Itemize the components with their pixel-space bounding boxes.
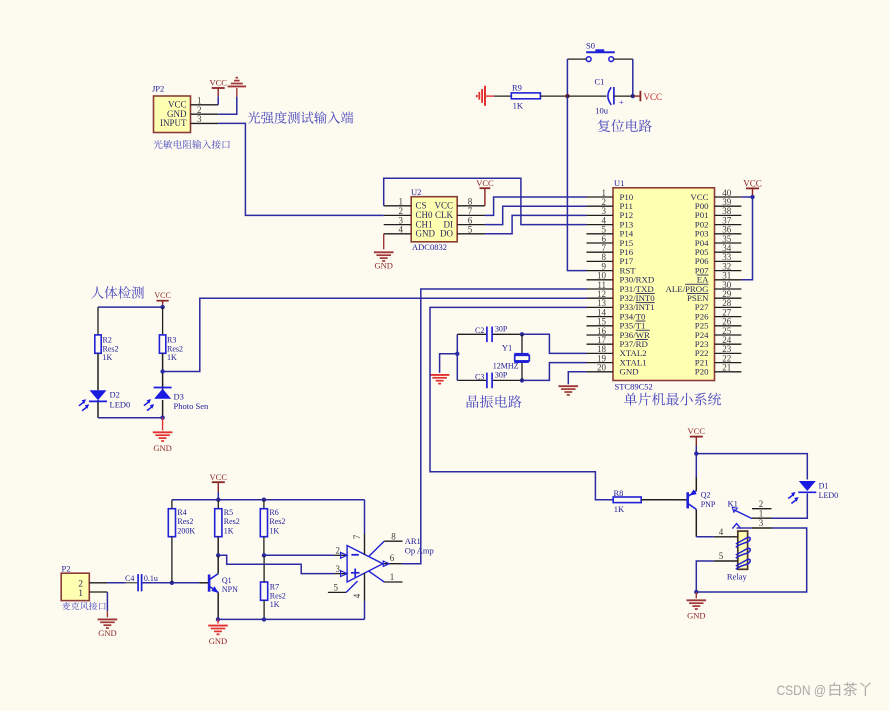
svg-text:P20: P20 xyxy=(695,367,709,377)
svg-text:Relay: Relay xyxy=(727,571,748,581)
svg-text:NPN: NPN xyxy=(222,585,238,594)
svg-text:GND: GND xyxy=(416,229,436,239)
svg-text:4: 4 xyxy=(398,225,403,235)
svg-text:Res2: Res2 xyxy=(103,344,119,353)
svg-text:P2: P2 xyxy=(62,564,71,574)
svg-text:VCC: VCC xyxy=(209,77,227,87)
svg-text:GND: GND xyxy=(209,636,227,646)
svg-text:R6: R6 xyxy=(269,508,278,517)
svg-text:Res2: Res2 xyxy=(167,344,183,353)
svg-text:1K: 1K xyxy=(167,353,177,362)
svg-text:Q1: Q1 xyxy=(222,576,232,585)
svg-text:PNP: PNP xyxy=(701,500,716,509)
svg-text:5: 5 xyxy=(468,225,473,235)
svg-text:Res2: Res2 xyxy=(269,517,285,526)
svg-text:R7: R7 xyxy=(270,583,279,592)
svg-text:VCC: VCC xyxy=(154,291,170,300)
svg-text:8: 8 xyxy=(391,532,396,542)
svg-text:10u: 10u xyxy=(595,106,609,116)
svg-text:INPUT: INPUT xyxy=(160,118,187,128)
svg-text:D3: D3 xyxy=(174,391,184,401)
svg-text:200K: 200K xyxy=(177,527,195,536)
svg-text:VCC: VCC xyxy=(210,472,228,482)
svg-text:1: 1 xyxy=(759,508,764,518)
svg-text:GND: GND xyxy=(620,367,639,377)
svg-text:R3: R3 xyxy=(167,336,176,345)
svg-text:2: 2 xyxy=(78,579,83,589)
svg-text:GND: GND xyxy=(153,443,171,453)
svg-text:1K: 1K xyxy=(269,527,279,536)
svg-text:1: 1 xyxy=(398,197,403,207)
svg-text:GND: GND xyxy=(374,261,392,271)
svg-text:D1: D1 xyxy=(819,481,829,490)
svg-text:1K: 1K xyxy=(270,600,280,609)
svg-text:VCC: VCC xyxy=(688,426,706,436)
svg-text:DO: DO xyxy=(440,229,453,239)
svg-text:R8: R8 xyxy=(614,488,624,498)
svg-text:3: 3 xyxy=(336,564,341,574)
svg-text:1K: 1K xyxy=(513,100,524,110)
svg-text:5: 5 xyxy=(334,583,339,593)
svg-text:30P: 30P xyxy=(495,371,508,380)
svg-text:Op Amp: Op Amp xyxy=(405,545,434,555)
svg-text:3: 3 xyxy=(197,114,202,124)
svg-text:Y1: Y1 xyxy=(502,342,512,352)
svg-text:LED0: LED0 xyxy=(819,491,839,500)
svg-text:VCC: VCC xyxy=(476,178,494,188)
svg-text:1K: 1K xyxy=(614,504,625,514)
svg-text:VCC: VCC xyxy=(434,201,453,211)
svg-text:2: 2 xyxy=(759,499,764,509)
svg-text:GND: GND xyxy=(98,628,116,638)
svg-text:R9: R9 xyxy=(512,82,522,92)
svg-text:20: 20 xyxy=(597,363,607,373)
svg-text:1: 1 xyxy=(78,589,83,599)
svg-text:C4: C4 xyxy=(125,574,134,583)
svg-text:7: 7 xyxy=(352,534,362,539)
svg-text:3: 3 xyxy=(759,518,764,528)
svg-text:CS: CS xyxy=(416,201,427,211)
svg-text:R2: R2 xyxy=(103,336,112,345)
svg-text:0.1u: 0.1u xyxy=(144,574,158,583)
svg-text:6: 6 xyxy=(390,553,395,563)
svg-text:LED0: LED0 xyxy=(110,399,131,409)
svg-text:Res2: Res2 xyxy=(177,517,193,526)
svg-text:VCC: VCC xyxy=(743,178,762,188)
svg-text:R4: R4 xyxy=(177,508,186,517)
svg-text:Q2: Q2 xyxy=(701,491,711,500)
svg-text:2: 2 xyxy=(336,546,341,556)
svg-text:21: 21 xyxy=(722,363,731,373)
svg-text:Res2: Res2 xyxy=(270,591,286,600)
svg-text:D2: D2 xyxy=(110,390,120,400)
svg-text:ADC0832: ADC0832 xyxy=(412,242,447,252)
svg-text:Res2: Res2 xyxy=(224,517,240,526)
svg-text:CSDN @: CSDN @ xyxy=(777,682,827,698)
svg-text:+: + xyxy=(619,97,624,107)
svg-text:4: 4 xyxy=(352,593,362,598)
svg-text:4: 4 xyxy=(719,527,724,537)
svg-text:VCC: VCC xyxy=(644,92,663,102)
svg-text:S0: S0 xyxy=(586,40,595,50)
svg-text:STC89C52: STC89C52 xyxy=(615,381,653,391)
svg-text:1K: 1K xyxy=(103,353,113,362)
svg-text:1: 1 xyxy=(390,572,395,582)
svg-text:Photo Sen: Photo Sen xyxy=(174,401,209,411)
svg-text:30P: 30P xyxy=(495,324,508,333)
svg-text:1K: 1K xyxy=(224,527,234,536)
svg-text:JP2: JP2 xyxy=(152,84,164,94)
svg-text:AR1: AR1 xyxy=(405,536,421,546)
svg-text:C1: C1 xyxy=(595,76,605,86)
svg-text:5: 5 xyxy=(719,551,724,561)
svg-text:R5: R5 xyxy=(224,508,233,517)
svg-text:U1: U1 xyxy=(614,178,624,188)
svg-text:GND: GND xyxy=(687,611,705,621)
svg-text:8: 8 xyxy=(468,197,473,207)
svg-text:U2: U2 xyxy=(411,187,421,197)
